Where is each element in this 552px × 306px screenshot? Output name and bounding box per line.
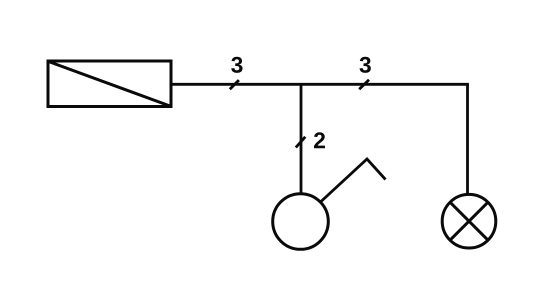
- switch actuator lever: [321, 159, 386, 202]
- lamp E1 (circle with cross): [442, 194, 496, 248]
- switch S1 (circle): [273, 194, 329, 250]
- conductor slash 1: [230, 80, 239, 89]
- label 2: [314, 132, 325, 148]
- label 3 (second): [360, 57, 371, 73]
- distribution box (rectangle with diagonal): [48, 61, 171, 107]
- label 3 (first): [231, 57, 242, 73]
- wire: right vertical drop to lamp: [466, 84, 469, 194]
- conductor slash 3 (vertical wire): [296, 137, 306, 148]
- conductor slash 2: [359, 80, 369, 89]
- wire: horizontal main run: [171, 83, 469, 86]
- wire: middle vertical drop to switch: [300, 84, 303, 193]
